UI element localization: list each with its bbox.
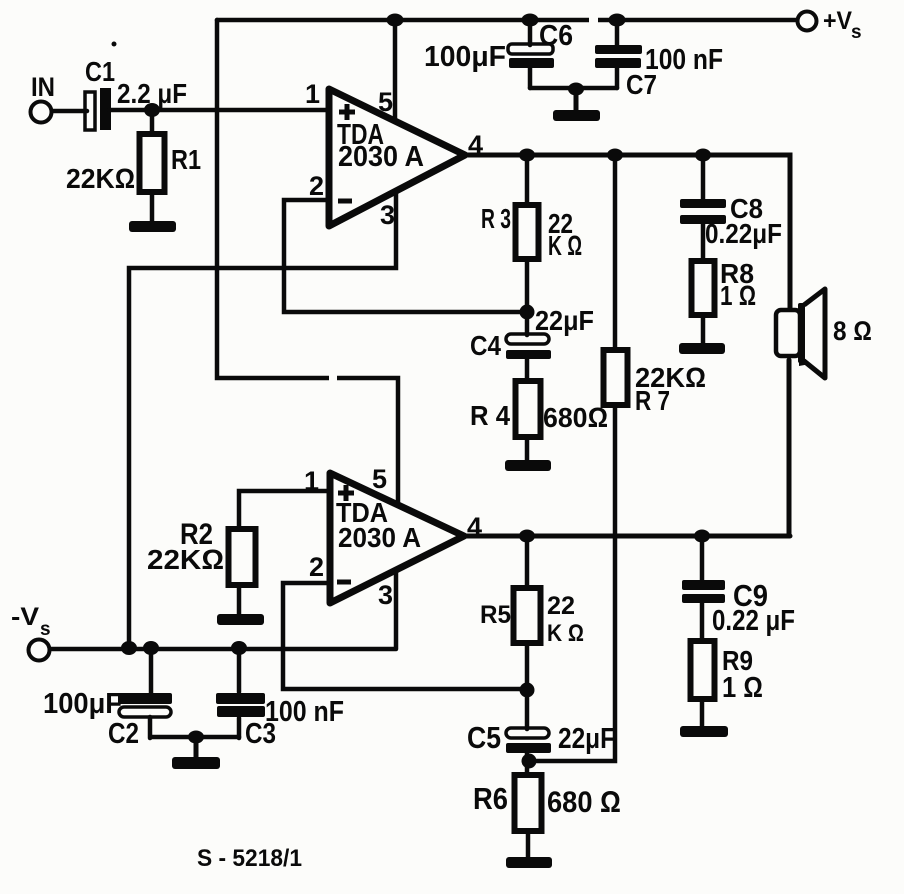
svg-text:680Ω: 680Ω bbox=[543, 402, 608, 433]
svg-text:22: 22 bbox=[547, 592, 575, 620]
svg-text:22KΩ: 22KΩ bbox=[147, 544, 224, 575]
wire pin1 U2 to R2 bbox=[239, 491, 330, 529]
resistor R1 bbox=[66, 110, 201, 221]
svg-text:22μF: 22μF bbox=[535, 305, 594, 336]
svg-text:2030 A: 2030 A bbox=[338, 141, 424, 173]
capacitor C6 bbox=[424, 20, 573, 88]
wire pin3 U2 to -Vs rail bbox=[394, 570, 399, 648]
svg-text:3: 3 bbox=[378, 580, 393, 610]
svg-text:680 Ω: 680 Ω bbox=[547, 786, 621, 819]
node junction top rail / pin5 U1 bbox=[387, 14, 404, 27]
capacitor C7 bbox=[595, 20, 723, 100]
resistor R6 bbox=[473, 775, 621, 858]
svg-text:C2: C2 bbox=[108, 718, 139, 750]
svg-text:100μF: 100μF bbox=[424, 41, 506, 73]
wire C6/C7 common bbox=[530, 86, 617, 91]
svg-text:100 nF: 100 nF bbox=[265, 696, 344, 728]
resistor R4 bbox=[470, 381, 608, 461]
resistor R2 bbox=[147, 518, 256, 615]
svg-text:R 3: R 3 bbox=[481, 203, 511, 234]
wire pin3 U1 to -Vs rail bbox=[129, 191, 396, 648]
node junction top rail / C6 bbox=[522, 14, 539, 27]
ground below R6 bbox=[506, 857, 552, 868]
resistor R9 bbox=[691, 641, 764, 727]
node junction out1/R3 bbox=[519, 149, 535, 162]
svg-text:R5: R5 bbox=[480, 601, 511, 629]
svg-text:2: 2 bbox=[309, 171, 324, 201]
svg-text:R6: R6 bbox=[473, 781, 508, 816]
svg-text:C7: C7 bbox=[626, 69, 657, 100]
wire -Vs rail bbox=[50, 647, 396, 652]
svg-text:S - 5218/1: S - 5218/1 bbox=[197, 845, 302, 872]
capacitor C9 0.22uF bbox=[682, 536, 795, 641]
capacitor C4 22uF bbox=[470, 305, 594, 381]
node junction C5/R6/R7 bbox=[522, 754, 537, 769]
ground below R2 bbox=[217, 614, 264, 625]
wire C2/C3 common bbox=[151, 735, 239, 740]
svg-text:R 7: R 7 bbox=[635, 385, 670, 416]
wire +Vs left drop to pin5 U2 bbox=[217, 20, 398, 505]
svg-text:C1: C1 bbox=[85, 56, 115, 87]
speaker 8 ohm bbox=[776, 289, 872, 378]
svg-text:1 Ω: 1 Ω bbox=[720, 280, 756, 311]
ground below R4 bbox=[505, 460, 551, 471]
ground below R1 bbox=[129, 221, 176, 232]
svg-text:22KΩ: 22KΩ bbox=[66, 163, 135, 194]
wire pin2 U1 feedback to R3/C4 node bbox=[284, 200, 521, 312]
node junction out1/C8 bbox=[695, 149, 711, 162]
ground below R8 bbox=[679, 343, 725, 354]
op-amp U1 TDA2030A bbox=[305, 79, 483, 230]
svg-text:+V: +V bbox=[823, 7, 852, 35]
svg-text:C3: C3 bbox=[245, 718, 276, 750]
node junction R3/C4/pin2 bbox=[520, 305, 535, 320]
svg-text:22μF: 22μF bbox=[558, 723, 615, 755]
node junction R5/C5/pin2 U2 bbox=[520, 683, 535, 698]
svg-text:s: s bbox=[851, 22, 862, 43]
svg-text:8 Ω: 8 Ω bbox=[833, 316, 872, 346]
capacitor C1 2.2uF bbox=[85, 56, 187, 130]
svg-text:0.22 μF: 0.22 μF bbox=[712, 605, 795, 637]
wire C1 to pin1 U1 bbox=[109, 108, 329, 113]
svg-text:-V: -V bbox=[11, 603, 39, 631]
capacitor C8 0.22uF bbox=[680, 155, 782, 261]
node junction C1/R1 bbox=[144, 103, 160, 117]
capacitor C2 100uF bbox=[43, 648, 172, 750]
node junction -Vs/C3 bbox=[231, 641, 247, 655]
svg-text:C5: C5 bbox=[467, 720, 501, 755]
node junction out2/R5 bbox=[519, 530, 535, 543]
svg-text:1: 1 bbox=[305, 79, 320, 109]
+Vs terminal bbox=[798, 7, 862, 43]
svg-text:1 Ω: 1 Ω bbox=[722, 672, 763, 704]
node junction top rail / C7 bbox=[609, 14, 626, 27]
input terminal IN bbox=[31, 42, 117, 123]
svg-text:C6: C6 bbox=[539, 20, 573, 52]
node junction C6-C7 bbox=[568, 83, 584, 96]
-Vs terminal bbox=[11, 603, 51, 661]
ground below C6/C7 bbox=[553, 89, 600, 121]
svg-text:2: 2 bbox=[309, 552, 324, 582]
svg-text:2030 A: 2030 A bbox=[338, 522, 421, 553]
node junction out2/C9 bbox=[694, 530, 710, 543]
svg-text:K Ω: K Ω bbox=[548, 230, 582, 261]
svg-text:R1: R1 bbox=[171, 144, 201, 175]
wire IN to C1 bbox=[52, 109, 87, 114]
node junction -Vs/pin3 U1 line bbox=[121, 641, 137, 655]
svg-text:3: 3 bbox=[380, 200, 395, 230]
svg-text:IN: IN bbox=[31, 72, 55, 102]
op-amp U2 TDA2030A bbox=[304, 464, 482, 610]
wire +Vs top rail bbox=[217, 18, 797, 23]
node junction C2-C3 bbox=[188, 731, 204, 744]
resistor R3 bbox=[481, 155, 582, 312]
wire output rail U2 bbox=[460, 534, 790, 539]
capacitor C5 22uF bbox=[467, 690, 615, 775]
label S-5218/1 bbox=[197, 845, 302, 872]
svg-text:100μF: 100μF bbox=[43, 688, 122, 720]
svg-text:K Ω: K Ω bbox=[547, 620, 584, 647]
svg-text:5: 5 bbox=[372, 464, 387, 494]
resistor R7 bbox=[532, 155, 706, 761]
wire speaker to out2 bbox=[787, 360, 792, 536]
wire gap artifacts bbox=[329, 13, 598, 385]
svg-text:5: 5 bbox=[378, 87, 393, 117]
svg-text:R 4: R 4 bbox=[470, 400, 510, 431]
resistor R8 bbox=[692, 258, 757, 344]
wire output rail U1 bbox=[461, 155, 790, 311]
node junction out1/R7 bbox=[607, 149, 623, 162]
capacitor C3 100nF bbox=[216, 648, 344, 750]
resistor R5 bbox=[480, 536, 584, 690]
wire +Vs to pin5 U1 bbox=[393, 20, 398, 120]
svg-text:C4: C4 bbox=[470, 330, 501, 361]
svg-text:0.22μF: 0.22μF bbox=[705, 218, 782, 249]
svg-text:s: s bbox=[40, 619, 51, 640]
ground below R9 bbox=[680, 726, 728, 737]
node junction -Vs/C2 bbox=[143, 641, 159, 655]
ground below C2/C3 bbox=[172, 737, 220, 769]
wire pin2 U2 feedback to R5/C5 node bbox=[283, 583, 521, 689]
